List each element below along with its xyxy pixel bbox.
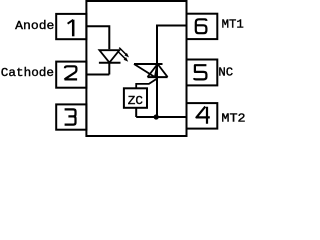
svg-text:NC: NC [218,65,233,79]
svg-text:MT1: MT1 [222,18,244,32]
svg-text:ZC: ZC [128,94,143,108]
svg-text:MT2: MT2 [221,111,245,125]
svg-text:Cathode: Cathode [1,66,54,80]
svg-text:Anode: Anode [15,19,54,33]
